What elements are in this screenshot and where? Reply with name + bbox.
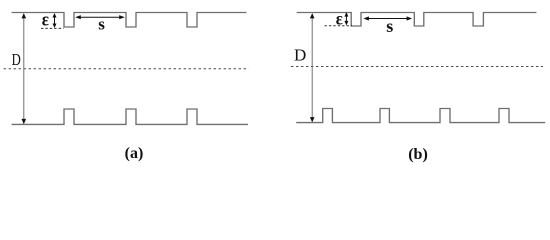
- svg-text:D: D: [12, 50, 21, 69]
- notch-depth dashed baseline (b): [325, 25, 353, 27]
- label s (b): [386, 16, 393, 36]
- dimension arrow D (b): [310, 13, 315, 122]
- dimension arrow D (a): [22, 13, 27, 124]
- bottom corrugated wall (a): [12, 109, 248, 124]
- center dashed axis (b): [291, 66, 543, 68]
- svg-text:D: D: [294, 45, 306, 64]
- label D (a): [12, 50, 21, 69]
- dimension arrow epsilon (a): [53, 13, 57, 28]
- dimension arrow s (a): [75, 15, 124, 19]
- notch-depth dashed baseline (a): [41, 27, 64, 29]
- svg-text:s: s: [386, 16, 393, 36]
- label D (b): [294, 45, 306, 64]
- dimension arrow epsilon (b): [344, 12, 348, 25]
- caption (b): [408, 146, 428, 163]
- top corrugated wall (b): [297, 13, 537, 27]
- svg-text:(b): (b): [408, 146, 428, 163]
- label epsilon (b): [336, 8, 343, 28]
- svg-text:s: s: [98, 14, 105, 33]
- svg-text:ε: ε: [42, 10, 49, 31]
- label epsilon (a): [42, 10, 49, 31]
- center dashed axis (a): [4, 68, 249, 70]
- top corrugated wall (a): [12, 13, 247, 28]
- label s (a): [98, 14, 105, 33]
- svg-text:(a): (a): [125, 145, 144, 162]
- bottom corrugated wall (b): [296, 109, 545, 123]
- dimension arrow s (b): [363, 16, 412, 20]
- caption (a): [125, 145, 144, 162]
